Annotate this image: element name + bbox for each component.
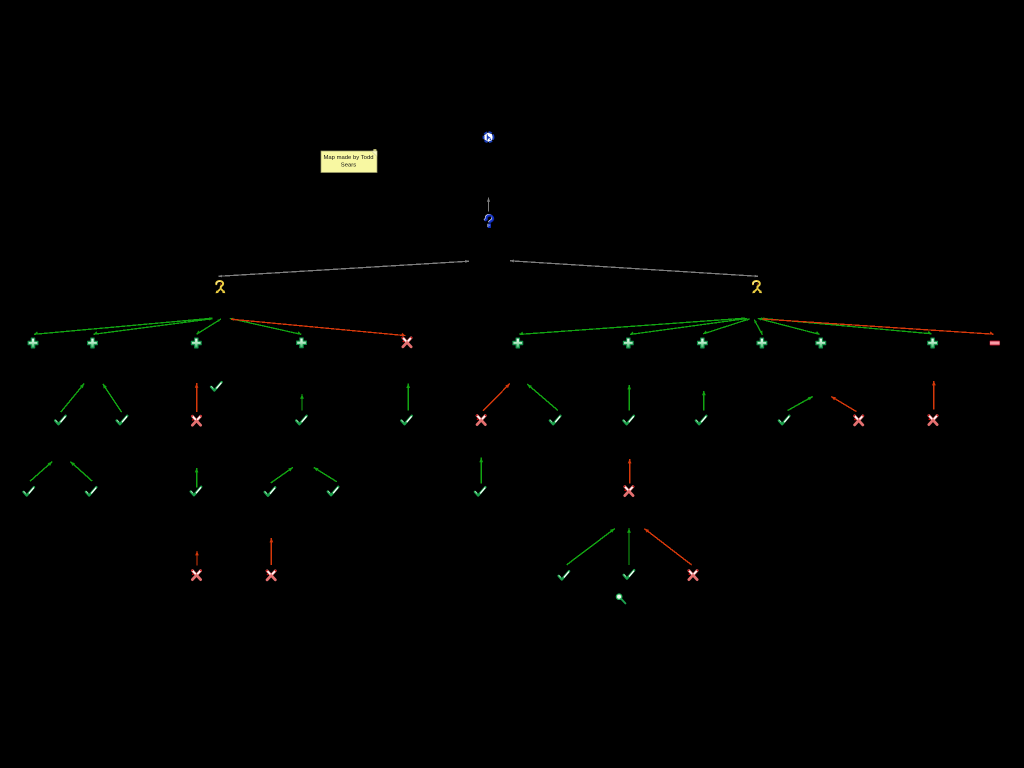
svg-text:Sears: Sears	[341, 163, 356, 169]
svg-text:Map made by Todd: Map made by Todd	[324, 155, 374, 161]
